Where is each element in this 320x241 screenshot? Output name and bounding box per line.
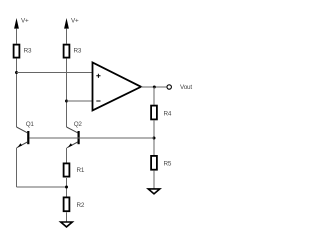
svg-text:R5: R5 <box>164 161 172 168</box>
node R1/R2 junction <box>65 186 68 189</box>
wire right rail R3 to Q2 collector <box>66 58 68 127</box>
V+ supply arrow left <box>14 18 19 44</box>
wire R4 to R5 <box>153 120 155 155</box>
svg-text:Vout: Vout <box>180 84 192 91</box>
wire R2 to ground <box>66 212 68 222</box>
resistor R1 <box>64 163 70 176</box>
resistor R5 <box>151 156 157 170</box>
svg-text:R1: R1 <box>77 167 85 174</box>
node + input junction <box>15 71 18 74</box>
node output junction <box>153 86 156 89</box>
wire inverting input <box>67 100 93 102</box>
svg-text:R2: R2 <box>77 202 85 209</box>
svg-text:R3: R3 <box>24 47 32 54</box>
wire left rail R3 to Q1 collector <box>16 58 18 127</box>
terminal Vout <box>167 85 171 89</box>
ground (right) <box>148 189 160 194</box>
op-amp U1 <box>93 63 142 111</box>
wire R5 to ground <box>153 171 155 189</box>
svg-text:Q2: Q2 <box>74 121 83 128</box>
wire output to R4 <box>153 87 155 105</box>
node feedback junction <box>153 137 156 140</box>
node - input junction <box>65 100 68 103</box>
wire bottom horizontal to R1/R2 junction <box>17 186 67 188</box>
svg-text:V+: V+ <box>21 17 29 24</box>
svg-text:Q1: Q1 <box>26 121 35 128</box>
wire Q2 emitter to R1 <box>66 148 68 163</box>
transistor Q2 <box>67 127 80 148</box>
ground (left) <box>61 222 73 227</box>
wire op-amp output <box>141 86 167 88</box>
svg-text:V+: V+ <box>71 17 79 24</box>
wire R1 to R2 <box>66 178 68 197</box>
wire base bus Q1-Q2-R4/R5 junction <box>29 137 154 139</box>
svg-text:R3: R3 <box>74 47 82 54</box>
transistor Q1 <box>17 127 30 148</box>
wire noninverting input <box>17 72 93 74</box>
svg-text:R4: R4 <box>164 111 172 118</box>
resistor R3 (left) <box>14 45 20 58</box>
V+ supply arrow right <box>64 18 69 44</box>
resistor R3 (right) <box>64 45 70 58</box>
resistor R4 <box>151 106 157 120</box>
resistor R2 <box>64 197 70 211</box>
wire Q1 emitter down <box>16 148 18 187</box>
